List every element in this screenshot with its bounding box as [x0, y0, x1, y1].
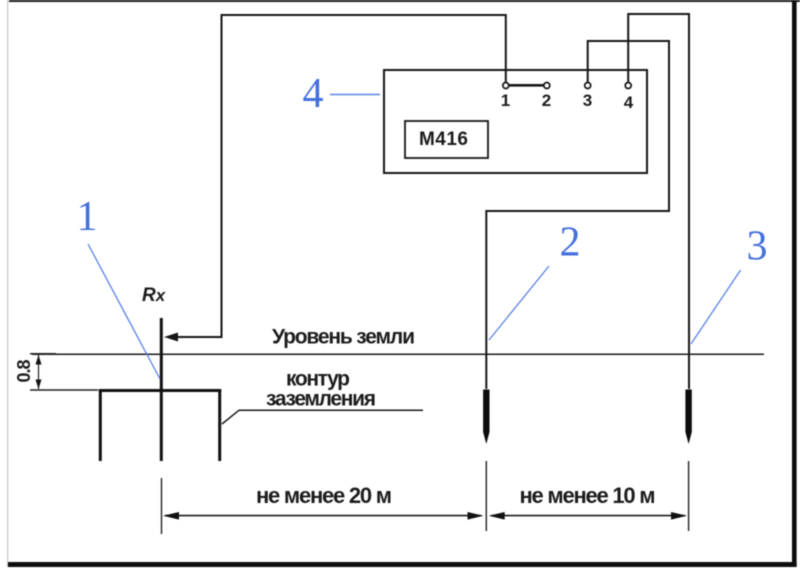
svg-text:1: 1: [501, 91, 510, 110]
frame left border: [7, 0, 8, 567]
callout 4 (blue) with leader: [303, 71, 381, 117]
callout 2 (blue) with leader: [489, 220, 581, 341]
earthing loop: top bus bar: [99, 389, 221, 392]
svg-text:0.8: 0.8: [14, 360, 34, 383]
earthing loop: left rod: [99, 389, 102, 461]
wire: terminal 4 to probe electrode 3: [628, 14, 689, 389]
svg-text:Rx: Rx: [142, 285, 167, 306]
svg-text:М416: М416: [419, 129, 468, 150]
svg-text:4: 4: [303, 71, 324, 117]
svg-text:не менее 10 м: не менее 10 м: [520, 483, 656, 508]
wire: terminal 1 to Rx electrode (with arrowhead): [164, 15, 506, 342]
terminal 2: [544, 83, 550, 89]
electrode Rx: vertical rod: [160, 318, 163, 461]
frame bottom border: [8, 562, 797, 567]
wire: terminal 3 to probe electrode 2: [486, 41, 669, 389]
earthing loop: right rod: [218, 389, 221, 461]
svg-text:Уровень земли: Уровень земли: [272, 326, 415, 349]
pin number 2: [542, 91, 551, 110]
svg-text:4: 4: [624, 93, 634, 112]
dimension 0.8 m depth: [14, 354, 98, 390]
probe electrode 3 spike: [685, 390, 691, 445]
ground level line: [32, 353, 764, 355]
label plate M416: [405, 121, 488, 158]
svg-text:3: 3: [583, 91, 592, 110]
pin number 1: [501, 91, 510, 110]
terminal 3: [585, 83, 591, 89]
pin number 3: [583, 91, 592, 110]
dimension: не менее 20 м: [162, 461, 487, 534]
pin number 4: [624, 93, 634, 112]
svg-text:3: 3: [747, 224, 768, 270]
device U1: M416 measuring instrument box: [384, 70, 647, 173]
text: Уровень земли: [272, 326, 415, 349]
terminal 1: [503, 83, 509, 89]
dimension: не менее 10 м: [489, 461, 689, 531]
frame top border: [9, 0, 800, 2]
label Rx: [142, 285, 167, 306]
svg-text:не менее 20 м: не менее 20 м: [256, 483, 392, 508]
jumper between terminals 1 and 2: [509, 84, 545, 87]
terminal 4: [625, 83, 631, 89]
svg-text:1: 1: [77, 194, 98, 240]
wire stubs terminals into box: [506, 70, 628, 83]
svg-text:2: 2: [560, 220, 581, 266]
probe electrode 2 spike: [483, 390, 489, 445]
callout 1 (blue) with leader: [77, 194, 161, 379]
svg-text:2: 2: [542, 91, 551, 110]
frame right border: [792, 0, 797, 567]
text: контур заземления with leader line: [222, 368, 423, 425]
svg-text:заземления: заземления: [266, 388, 376, 411]
callout 3 (blue) with leader: [691, 224, 768, 345]
